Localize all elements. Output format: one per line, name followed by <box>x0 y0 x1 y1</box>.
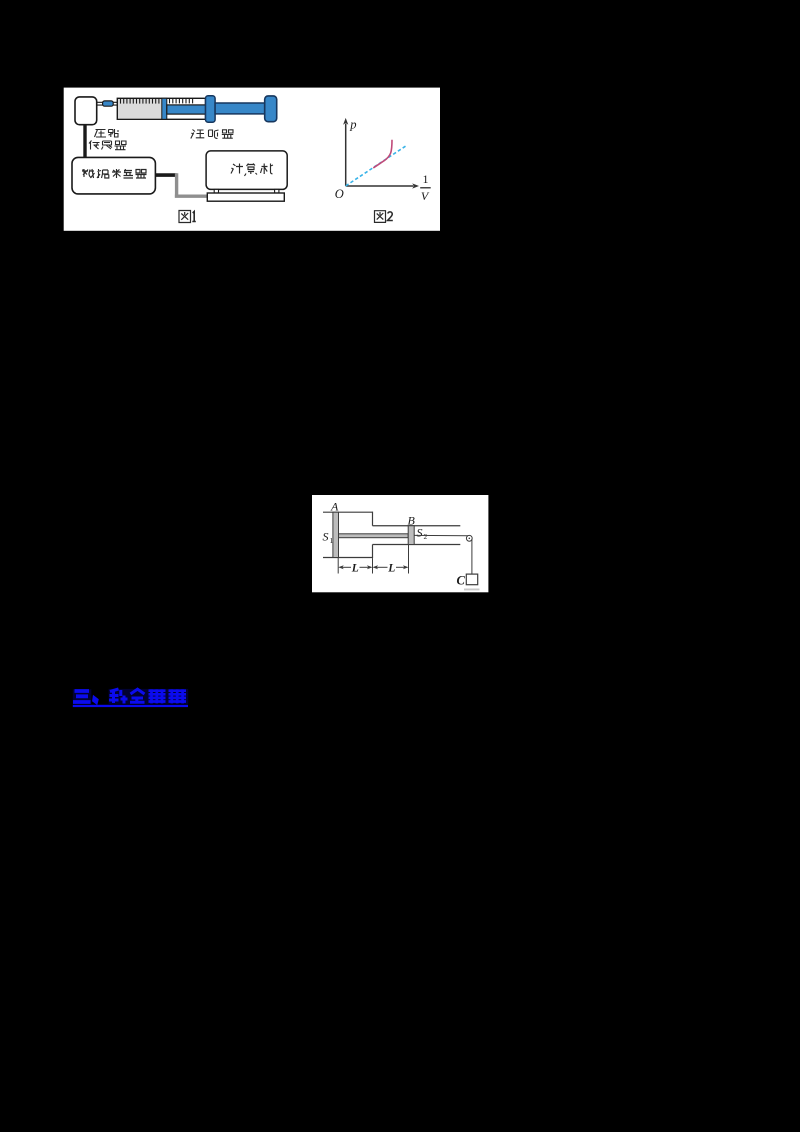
dimension extension line 3 <box>408 545 410 574</box>
small cylinder top wall <box>373 525 461 527</box>
blue section heading 三、综合题型 <box>73 689 188 707</box>
dimension extension line 2 <box>372 558 374 573</box>
caption 图1 <box>179 211 196 223</box>
heading char 4 <box>169 689 187 703</box>
svg-text:S: S <box>417 525 423 539</box>
step wall upper <box>372 512 374 526</box>
svg-text:B: B <box>408 513 416 527</box>
label 传感器 (sensor) <box>89 141 126 150</box>
heading char 3 <box>149 689 166 703</box>
measured p curve <box>373 140 392 168</box>
pressure sensor body <box>75 97 97 125</box>
barrel tick marks left <box>121 98 159 103</box>
computer box <box>206 151 287 190</box>
label 数据采集器 (data collector) <box>82 169 147 178</box>
heading glow underlay <box>73 689 92 704</box>
blue connector <box>103 101 114 106</box>
pulley <box>466 535 472 541</box>
label 压强 (pressure) <box>95 129 119 137</box>
heading underline <box>73 705 188 707</box>
syringe barrel graduated gray part <box>118 99 162 119</box>
label 计算机 (computer) <box>231 164 273 177</box>
barrel tick marks right <box>170 98 193 103</box>
small cylinder bottom wall <box>373 544 461 546</box>
data collector box <box>72 157 155 194</box>
computer base <box>207 193 284 201</box>
label 注射器 (syringe) <box>191 130 234 139</box>
svg-text:p: p <box>349 117 356 131</box>
string vertical <box>471 539 473 574</box>
syringe plunger seal <box>162 98 167 119</box>
sensor tube lines <box>97 101 118 103</box>
plunger flange <box>206 96 216 122</box>
dashed proportional line <box>346 146 407 186</box>
piston B <box>408 526 414 545</box>
figure 1 white panel <box>64 88 440 231</box>
char 三 <box>73 691 91 702</box>
block shadow <box>464 589 480 591</box>
dimension arrow L2 <box>373 565 379 569</box>
wire corner down (gray) <box>175 173 208 196</box>
graph: x axis 1/V <box>346 185 414 187</box>
svg-text:A: A <box>330 499 339 513</box>
heading char 2 <box>130 689 145 702</box>
piston A <box>333 512 339 557</box>
svg-text:L: L <box>387 562 395 574</box>
plunger handle <box>265 96 277 122</box>
dimension extension line 1 <box>337 558 339 574</box>
string horizontal <box>414 534 468 536</box>
svg-text:1: 1 <box>330 536 334 545</box>
syringe plunger rod inside barrel <box>167 105 206 114</box>
plunger shaft <box>215 103 265 114</box>
svg-text:S: S <box>323 529 329 543</box>
graph: y axis p <box>345 124 347 187</box>
computer legs <box>214 189 218 193</box>
svg-text:2: 2 <box>424 532 428 541</box>
heading char 1 <box>109 689 128 704</box>
svg-text:L: L <box>351 562 359 574</box>
big cylinder top wall <box>323 511 373 513</box>
caption 图2 <box>375 211 393 223</box>
piston rod <box>339 534 409 538</box>
wire sensor to data collector <box>83 125 86 158</box>
step wall lower <box>372 545 374 559</box>
figure 2 white panel <box>312 495 488 592</box>
syringe barrel <box>117 98 205 119</box>
block C <box>466 574 477 585</box>
、 <box>93 696 98 704</box>
svg-text:C: C <box>457 573 466 587</box>
svg-text:1: 1 <box>423 172 429 186</box>
big cylinder bottom wall <box>323 557 373 559</box>
wire data collector to computer: black segment <box>155 173 176 177</box>
svg-text:O: O <box>335 187 344 201</box>
dimension arrow L1 <box>338 565 344 569</box>
